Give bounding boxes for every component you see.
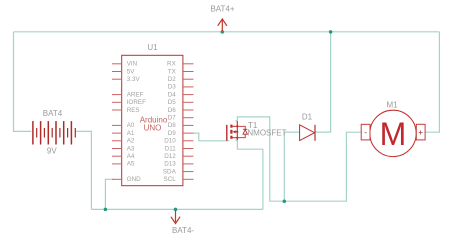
svg-text:IOREF: IOREF [127,99,146,106]
svg-text:D10: D10 [164,138,176,145]
T1 vertical bus [236,121,238,140]
wire bottom rail BAT4- net [91,208,263,210]
svg-text:D12: D12 [164,153,176,160]
svg-text:D4: D4 [168,91,177,98]
net label arrow BAT4+ [218,19,227,31]
wire MOSFET drain path to motor - [237,117,361,201]
svg-text:D5: D5 [168,99,177,106]
svg-text:A4: A4 [127,153,135,160]
T1 junction square source [236,137,238,139]
wire battery - to bottom rail [76,131,91,209]
svg-text:SCL: SCL [164,176,177,183]
wire left drop from top rail to battery + [14,32,32,132]
svg-text:D13: D13 [164,161,176,168]
T1 channel bar middle [230,130,232,134]
svg-text:AREF: AREF [127,91,144,98]
svg-text:UNO: UNO [144,124,162,133]
wire top rail BAT4+ net [14,31,440,33]
svg-text:D7: D7 [168,115,177,122]
T1 gate bar [226,125,228,141]
motor M1 terminal + box [416,124,425,140]
T1 channel bar top [230,125,232,128]
IC U1 Arduino UNO box [122,55,183,185]
diode D1 cathode bar [314,125,316,141]
svg-text:BAT4: BAT4 [43,109,63,118]
T1 body arrowhead [232,130,235,133]
svg-text:D8: D8 [168,122,177,129]
svg-text:BAT4+: BAT4+ [210,5,234,14]
T1 body diode triangle [243,130,247,135]
svg-text:D9: D9 [168,130,177,137]
svg-text:A2: A2 [127,138,135,145]
T1 drain pin tip mark [235,120,237,122]
svg-text:A0: A0 [127,122,135,129]
svg-text:GND: GND [127,176,141,183]
node junction dot BAT4+ on top rail [221,30,225,34]
motor M1 body circle [370,110,416,156]
T1 channel bar bottom [230,136,232,139]
svg-text:TX: TX [168,68,177,75]
node junction dot diode drop on top rail [329,30,333,34]
T1 junction square drain [236,125,238,127]
svg-text:D2: D2 [168,76,177,83]
svg-text:A3: A3 [127,145,135,152]
wire gate from Arduino D9 to MOSFET gate [193,133,229,141]
T1 source lead [233,137,238,139]
svg-text:NMOSFET: NMOSFET [247,129,286,138]
svg-text:A5: A5 [127,161,135,168]
svg-text:D6: D6 [168,107,177,114]
svg-text:5V: 5V [127,68,136,75]
svg-text:M1: M1 [386,101,398,110]
T1 body diode bottom connect [237,134,245,138]
svg-text:A1: A1 [127,130,135,137]
svg-text:M: M [380,116,407,152]
transistor T1 NMOSFET [227,121,248,141]
motor M1 terminal - box [361,124,370,140]
T1 body diode bar [243,128,247,130]
svg-text:BAT4-: BAT4- [172,226,194,235]
U1 right pin stubs [183,64,194,180]
wire MOSFET source to bottom rail [237,140,263,209]
svg-text:D3: D3 [168,84,177,91]
net label arrow BAT4- [171,211,180,224]
U1 left pin labels [127,61,146,184]
svg-text:U1: U1 [147,43,158,52]
T1 drain lead [233,125,238,127]
U1 right pin labels [163,61,177,184]
wire drop from top rail to diode cathode [315,32,330,132]
T1 junction square body [236,131,238,133]
T1 body diode top connect [237,126,245,129]
svg-text:D11: D11 [165,145,177,152]
wire right drop from top rail to motor + [425,32,439,132]
T1 body arrow shaft [235,131,238,133]
svg-text:-: - [364,128,367,137]
wire branch from drain path up to diode anode [284,132,299,201]
svg-text:+: + [418,128,423,137]
svg-text:9V: 9V [47,147,57,156]
svg-text:SDA: SDA [163,168,177,175]
diode D1 triangle [300,125,315,141]
svg-text:3.3V: 3.3V [127,76,141,83]
node junction dot BAT4- on bottom rail [174,208,178,212]
node junction dot diode anode branch [283,199,287,203]
svg-text:RES: RES [127,107,140,114]
svg-text:RX: RX [167,61,177,68]
svg-text:VIN: VIN [127,61,138,68]
wire GND drop from Arduino GND to bottom rail [105,179,113,209]
U1 left pin stubs [112,64,122,180]
node junction dot GND drop on bottom rail [104,208,108,212]
svg-text:D1: D1 [302,112,313,121]
T1 source pin tip mark [235,139,237,141]
battery BAT4 9V [33,121,75,144]
